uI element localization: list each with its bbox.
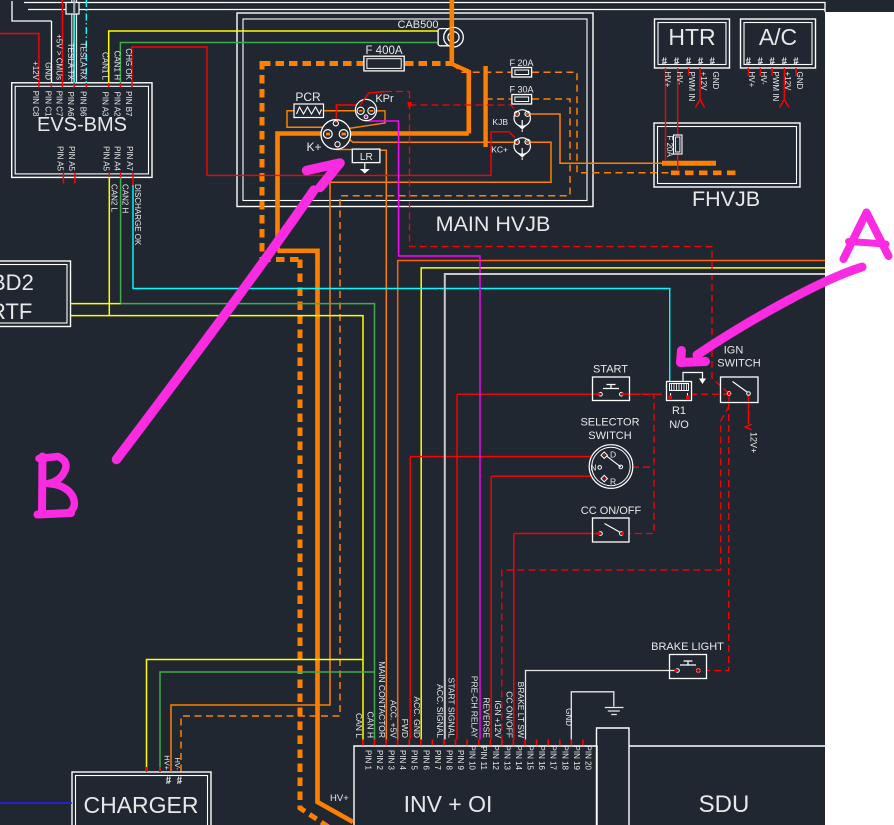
svg-text:HV-: HV- <box>759 72 768 86</box>
svg-text:HTR: HTR <box>668 24 715 50</box>
svg-text:REVERSE: REVERSE <box>481 697 491 738</box>
svg-text:PIN 6: PIN 6 <box>421 750 430 771</box>
svg-text:LR: LR <box>360 152 373 163</box>
svg-text:PIN A6: PIN A6 <box>66 92 75 117</box>
svg-text:R1: R1 <box>672 405 686 417</box>
svg-text:+5V > CMUs: +5V > CMUs <box>54 34 63 80</box>
svg-text:F 400A: F 400A <box>365 45 402 57</box>
svg-text:FHVJB: FHVJB <box>692 187 760 211</box>
svg-text:HV+: HV+ <box>747 72 756 88</box>
svg-text:PIN 11: PIN 11 <box>479 746 488 770</box>
svg-text:PIN A5: PIN A5 <box>67 146 76 171</box>
svg-text:PIN B7: PIN B7 <box>124 91 133 117</box>
svg-text:12V+: 12V+ <box>749 432 759 453</box>
svg-text:INV + OI: INV + OI <box>404 791 493 817</box>
svg-text:PIN B6: PIN B6 <box>78 91 87 117</box>
svg-text:HV-: HV- <box>173 757 182 770</box>
svg-text:PIN 4: PIN 4 <box>398 750 407 771</box>
svg-text:PIN 18: PIN 18 <box>560 746 569 771</box>
svg-text:N: N <box>590 463 596 473</box>
svg-text:PIN C7: PIN C7 <box>54 91 63 117</box>
svg-text:GND: GND <box>711 72 720 90</box>
svg-text:TESLA TX: TESLA TX <box>66 43 75 81</box>
svg-text:SELECTOR: SELECTOR <box>580 417 639 429</box>
svg-text:F 30A: F 30A <box>509 85 533 95</box>
svg-text:BRAKE LIGHT: BRAKE LIGHT <box>651 641 724 653</box>
svg-text:OBD2: OBD2 <box>0 270 34 295</box>
svg-text:PIN A3: PIN A3 <box>101 92 110 117</box>
svg-text:MAIN HVJB: MAIN HVJB <box>436 212 551 236</box>
svg-text:START: START <box>593 364 628 376</box>
svg-text:HV+: HV+ <box>330 793 349 804</box>
svg-text:EVS-BMS: EVS-BMS <box>37 114 127 136</box>
svg-text:PIN 17: PIN 17 <box>549 746 558 771</box>
svg-text:CAN1 L: CAN1 L <box>101 52 110 81</box>
svg-text:MAIN CONTACTOR: MAIN CONTACTOR <box>377 661 387 738</box>
svg-text:PCR: PCR <box>295 90 321 104</box>
svg-text:PIN 12: PIN 12 <box>491 746 500 771</box>
svg-text:GND: GND <box>43 62 52 80</box>
svg-text:RTF: RTF <box>0 299 32 324</box>
svg-text:D: D <box>610 450 616 460</box>
svg-text:TESLA RX: TESLA RX <box>78 42 87 81</box>
svg-text:IGN: IGN <box>724 345 744 357</box>
svg-text:F 20A: F 20A <box>509 58 533 68</box>
svg-text:START SIGNAL: START SIGNAL <box>447 678 457 739</box>
svg-text:CAN2 H: CAN2 H <box>121 184 130 214</box>
svg-text:HV-: HV- <box>675 72 684 86</box>
svg-text:SDU: SDU <box>699 791 750 818</box>
svg-text:R: R <box>610 477 616 487</box>
svg-text:+12V: +12V <box>783 72 792 92</box>
svg-text:PRE-CH RELAY: PRE-CH RELAY <box>470 676 480 739</box>
svg-text:CAN L: CAN L <box>354 713 364 738</box>
svg-text:PWM IN: PWM IN <box>687 72 696 102</box>
svg-text:CAB500: CAB500 <box>398 19 439 31</box>
svg-text:KJB: KJB <box>492 117 508 127</box>
svg-text:IGN +12V: IGN +12V <box>493 700 503 738</box>
svg-text:PIN 10: PIN 10 <box>468 746 477 771</box>
svg-text:+12V: +12V <box>699 72 708 92</box>
svg-text:ACC. GND: ACC. GND <box>412 696 422 738</box>
svg-text:PIN C1: PIN C1 <box>43 91 52 117</box>
svg-text:SWITCH: SWITCH <box>588 430 631 442</box>
svg-text:FWD: FWD <box>400 719 410 738</box>
svg-text:PIN 3: PIN 3 <box>387 750 396 771</box>
svg-text:SWITCH: SWITCH <box>717 358 760 370</box>
svg-text:PIN A5: PIN A5 <box>55 146 64 171</box>
svg-text:PIN A2: PIN A2 <box>112 92 121 117</box>
svg-text:HV+: HV+ <box>663 72 672 88</box>
svg-text:KC+: KC+ <box>491 145 508 155</box>
svg-text:F 20A: F 20A <box>665 136 674 158</box>
svg-text:KPr: KPr <box>375 93 394 105</box>
svg-text:PIN 1: PIN 1 <box>363 750 372 771</box>
svg-text:K+: K+ <box>306 140 321 154</box>
svg-text:CHARGER: CHARGER <box>83 792 198 818</box>
svg-text:CC ON/OFF: CC ON/OFF <box>581 505 642 517</box>
svg-text:PIN 15: PIN 15 <box>526 746 535 771</box>
svg-text:PIN C8: PIN C8 <box>31 91 40 117</box>
svg-text:+12V: +12V <box>31 61 40 81</box>
svg-text:DISCHARGE OK: DISCHARGE OK <box>133 184 142 246</box>
svg-text:PWM IN: PWM IN <box>771 72 780 102</box>
svg-text:PIN 2: PIN 2 <box>375 750 384 771</box>
svg-text:PIN A4: PIN A4 <box>113 146 122 171</box>
svg-text:PIN 20: PIN 20 <box>583 746 592 771</box>
svg-text:CAN H: CAN H <box>366 712 376 738</box>
svg-text:ACC. +5V: ACC. +5V <box>389 700 399 738</box>
svg-text:PIN 8: PIN 8 <box>444 750 453 771</box>
svg-text:PIN 19: PIN 19 <box>572 746 581 771</box>
svg-text:PIN 16: PIN 16 <box>537 746 546 771</box>
svg-text:CHG OK: CHG OK <box>124 48 133 80</box>
svg-text:PIN 9: PIN 9 <box>456 750 465 771</box>
svg-text:ACC. SIGNAL: ACC. SIGNAL <box>435 684 445 738</box>
svg-text:HV+: HV+ <box>163 755 172 770</box>
svg-text:PIN 7: PIN 7 <box>433 750 442 771</box>
svg-text:PIN A5: PIN A5 <box>101 146 110 171</box>
svg-text:PIN 13: PIN 13 <box>502 746 511 771</box>
svg-text:N/O: N/O <box>669 419 689 431</box>
svg-text:CAN2 L: CAN2 L <box>109 184 118 213</box>
svg-text:CC ON/OFF: CC ON/OFF <box>504 691 514 738</box>
svg-text:PIN 5: PIN 5 <box>410 750 419 771</box>
svg-text:BRAKE LT SW: BRAKE LT SW <box>516 682 526 738</box>
svg-text:A/C: A/C <box>759 24 797 50</box>
svg-text:PIN A7: PIN A7 <box>125 146 134 171</box>
svg-text:GND: GND <box>795 72 804 90</box>
svg-text:PIN 14: PIN 14 <box>514 746 523 771</box>
svg-text:CAN1 H: CAN1 H <box>112 51 121 81</box>
svg-text:GND: GND <box>564 708 573 726</box>
